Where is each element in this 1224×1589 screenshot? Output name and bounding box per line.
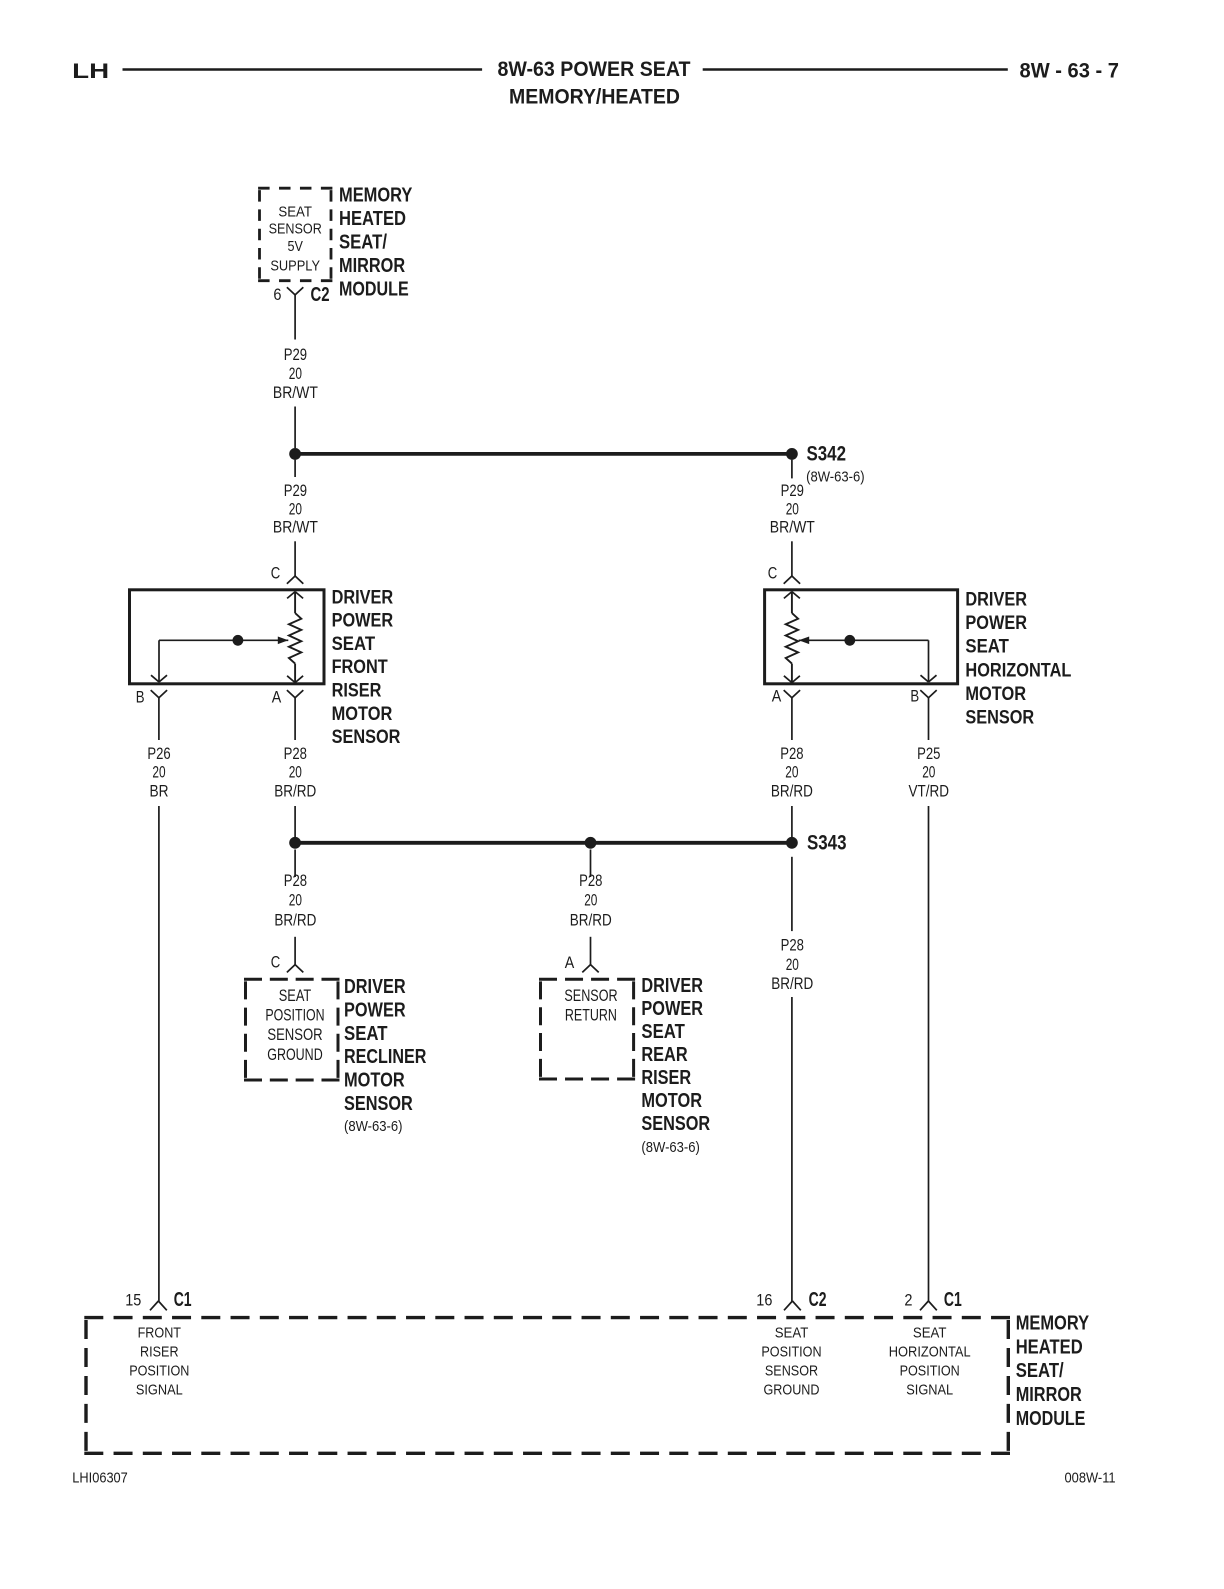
svg-text:20: 20 [584, 892, 597, 910]
svg-text:SENSOR: SENSOR [332, 726, 401, 748]
svg-text:HEATED: HEATED [339, 208, 406, 230]
svg-text:008W-11: 008W-11 [1065, 1470, 1116, 1487]
svg-text:20: 20 [152, 764, 165, 782]
svg-text:POWER: POWER [965, 612, 1027, 634]
svg-text:S343: S343 [807, 831, 847, 855]
svg-text:MODULE: MODULE [339, 279, 409, 301]
svg-text:C1: C1 [944, 1289, 962, 1311]
svg-text:POSITION: POSITION [900, 1362, 960, 1379]
svg-text:P28: P28 [781, 937, 804, 955]
svg-text:GROUND: GROUND [764, 1381, 820, 1398]
svg-text:MIRROR: MIRROR [339, 255, 406, 277]
svg-text:C: C [271, 954, 281, 972]
svg-text:POSITION: POSITION [761, 1344, 821, 1361]
svg-text:BR/WT: BR/WT [273, 519, 318, 537]
svg-text:A: A [565, 954, 575, 972]
svg-text:SENSOR: SENSOR [267, 1025, 322, 1044]
svg-text:BR: BR [150, 782, 169, 800]
svg-text:P26: P26 [147, 745, 170, 763]
svg-text:SEAT: SEAT [913, 1325, 947, 1342]
svg-text:BR/RD: BR/RD [274, 782, 316, 800]
svg-text:MEMORY/HEATED: MEMORY/HEATED [509, 85, 680, 109]
svg-text:A: A [272, 689, 282, 707]
svg-text:SIGNAL: SIGNAL [906, 1381, 953, 1398]
svg-text:LH: LH [72, 59, 109, 83]
svg-text:HORIZONTAL: HORIZONTAL [889, 1344, 971, 1361]
svg-text:SEAT: SEAT [279, 986, 312, 1005]
svg-text:SENSOR: SENSOR [564, 986, 617, 1005]
svg-text:DRIVER: DRIVER [965, 589, 1027, 611]
svg-text:SEAT: SEAT [344, 1023, 388, 1045]
svg-text:20: 20 [289, 500, 302, 518]
svg-text:BR/RD: BR/RD [771, 782, 813, 800]
svg-text:POSITION: POSITION [265, 1006, 324, 1025]
svg-text:15: 15 [125, 1292, 141, 1310]
svg-text:POWER: POWER [332, 610, 394, 632]
svg-text:MOTOR: MOTOR [641, 1090, 702, 1112]
svg-text:HORIZONTAL: HORIZONTAL [965, 659, 1071, 681]
svg-text:SENSOR: SENSOR [641, 1113, 710, 1135]
svg-text:GROUND: GROUND [267, 1045, 322, 1064]
svg-text:RISER: RISER [332, 680, 382, 702]
svg-text:P28: P28 [284, 745, 307, 763]
svg-text:5V: 5V [288, 238, 303, 255]
svg-text:SEAT/: SEAT/ [339, 232, 387, 254]
svg-text:DRIVER: DRIVER [641, 975, 703, 997]
svg-text:RETURN: RETURN [565, 1006, 617, 1025]
svg-text:P25: P25 [917, 745, 940, 763]
svg-text:C2: C2 [809, 1289, 827, 1311]
svg-text:FRONT: FRONT [332, 656, 388, 678]
svg-text:POSITION: POSITION [129, 1362, 189, 1379]
svg-text:20: 20 [786, 500, 799, 518]
svg-text:B: B [910, 688, 919, 706]
svg-text:20: 20 [922, 764, 935, 782]
svg-text:SIGNAL: SIGNAL [136, 1381, 183, 1398]
svg-text:P28: P28 [579, 872, 602, 890]
svg-text:RISER: RISER [140, 1344, 179, 1361]
svg-text:SEAT/: SEAT/ [1016, 1360, 1064, 1382]
svg-text:S342: S342 [807, 442, 847, 466]
svg-text:20: 20 [289, 892, 302, 910]
svg-text:VT/RD: VT/RD [909, 782, 950, 800]
svg-text:BR/RD: BR/RD [771, 975, 813, 993]
svg-text:SENSOR: SENSOR [269, 221, 322, 238]
svg-text:SENSOR: SENSOR [765, 1362, 818, 1379]
svg-text:20: 20 [785, 764, 798, 782]
svg-text:RECLINER: RECLINER [344, 1046, 427, 1068]
svg-text:8W - 63 - 7: 8W - 63 - 7 [1020, 59, 1120, 83]
svg-text:LHI06307: LHI06307 [72, 1469, 128, 1486]
svg-text:SEAT: SEAT [332, 633, 376, 655]
svg-text:SEAT: SEAT [775, 1325, 809, 1342]
svg-text:(8W-63-6): (8W-63-6) [806, 468, 865, 485]
svg-text:SEAT: SEAT [965, 636, 1009, 658]
svg-text:BR/RD: BR/RD [570, 911, 612, 929]
svg-text:REAR: REAR [641, 1044, 688, 1066]
svg-text:(8W-63-6): (8W-63-6) [641, 1139, 700, 1156]
svg-text:MIRROR: MIRROR [1016, 1384, 1083, 1406]
svg-text:C1: C1 [174, 1289, 192, 1311]
svg-text:MEMORY: MEMORY [1016, 1313, 1090, 1335]
svg-text:SUPPLY: SUPPLY [270, 258, 320, 275]
svg-text:8W-63 POWER SEAT: 8W-63 POWER SEAT [498, 57, 691, 81]
svg-text:B: B [136, 689, 145, 707]
svg-text:20: 20 [289, 764, 302, 782]
svg-text:C: C [768, 564, 778, 582]
svg-text:MEMORY: MEMORY [339, 185, 413, 207]
svg-text:SEAT: SEAT [641, 1021, 685, 1043]
svg-text:(8W-63-6): (8W-63-6) [344, 1118, 403, 1135]
svg-text:POWER: POWER [641, 998, 703, 1020]
svg-text:P28: P28 [284, 872, 307, 890]
svg-text:MODULE: MODULE [1016, 1408, 1086, 1430]
svg-text:SEAT: SEAT [278, 204, 312, 221]
svg-text:20: 20 [289, 365, 302, 383]
svg-text:RISER: RISER [641, 1067, 691, 1089]
svg-text:P29: P29 [781, 482, 804, 500]
svg-text:P29: P29 [284, 346, 307, 364]
svg-text:16: 16 [756, 1292, 772, 1310]
svg-text:A: A [772, 688, 782, 706]
svg-text:HEATED: HEATED [1016, 1336, 1083, 1358]
svg-text:FRONT: FRONT [138, 1325, 181, 1342]
svg-text:MOTOR: MOTOR [344, 1070, 405, 1092]
svg-text:MOTOR: MOTOR [332, 703, 393, 725]
svg-text:MOTOR: MOTOR [965, 683, 1026, 705]
svg-text:P28: P28 [780, 745, 803, 763]
svg-text:6: 6 [273, 286, 281, 304]
svg-text:C2: C2 [311, 284, 330, 306]
svg-text:BR/WT: BR/WT [273, 384, 318, 402]
svg-text:P29: P29 [284, 482, 307, 500]
svg-text:BR/WT: BR/WT [770, 519, 815, 537]
svg-text:C: C [271, 564, 281, 582]
svg-text:SENSOR: SENSOR [344, 1093, 413, 1115]
svg-text:DRIVER: DRIVER [332, 586, 394, 608]
svg-text:20: 20 [786, 956, 799, 974]
svg-text:SENSOR: SENSOR [965, 706, 1034, 728]
svg-text:BR/RD: BR/RD [274, 911, 316, 929]
svg-text:2: 2 [904, 1292, 912, 1310]
svg-text:POWER: POWER [344, 999, 406, 1021]
svg-text:DRIVER: DRIVER [344, 976, 406, 998]
